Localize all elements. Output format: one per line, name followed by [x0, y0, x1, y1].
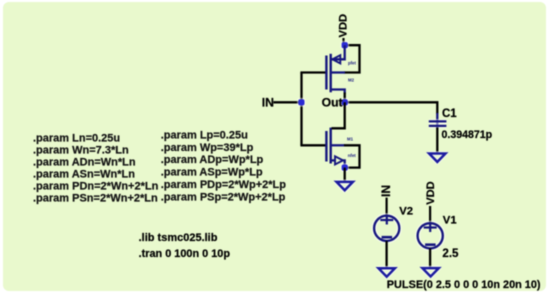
svg-text:.param PSn=2*Wn+2*Ln: .param PSn=2*Wn+2*Ln	[33, 192, 158, 204]
ground (below V1)	[422, 268, 438, 276]
svg-text:V2: V2	[399, 205, 413, 217]
svg-text:Out: Out	[322, 95, 343, 109]
svg-text:.param Ln=0.25u: .param Ln=0.25u	[33, 132, 120, 144]
node VDD	[340, 41, 349, 50]
svg-text:IN: IN	[262, 95, 274, 109]
svg-text:.param PDp=2*Wp+2*Lp: .param PDp=2*Wp+2*Lp	[161, 179, 287, 191]
svg-text:.param ADp=Wp*Lp: .param ADp=Wp*Lp	[161, 154, 264, 166]
wire IN lead	[274, 101, 302, 103]
svg-text:M1: M1	[347, 137, 354, 142]
voltage source V2	[374, 185, 413, 268]
svg-text:nfet: nfet	[348, 153, 356, 158]
wire VDD node to bulk loop	[344, 45, 360, 72]
node NMOS source	[340, 163, 349, 172]
svg-text:PULSE(0 2.5 0 0 0 10n 20n 10): PULSE(0 2.5 0 0 0 10n 20n 10)	[387, 279, 541, 291]
svg-text:M2: M2	[348, 77, 355, 82]
svg-text:.lib tsmc025.lib: .lib tsmc025.lib	[139, 232, 218, 244]
spice directive .param block p	[161, 129, 287, 203]
svg-text:.param ASp=Wp*Lp: .param ASp=Wp*Lp	[161, 167, 263, 179]
svg-text:VDD: VDD	[337, 14, 349, 38]
voltage source V1	[418, 181, 459, 267]
ground (below V2)	[379, 268, 395, 276]
transistor M1 (nfet)	[326, 102, 356, 167]
svg-text:.param Wn=7.3*Ln: .param Wn=7.3*Ln	[33, 144, 129, 156]
svg-text:.param Wp=39*Lp: .param Wp=39*Lp	[161, 142, 254, 154]
wire gate bus vertical	[300, 73, 302, 146]
wire C1 to ground	[436, 128, 438, 154]
wire NMOS bulk loop	[344, 145, 360, 167]
svg-text:.tran 0 100n 0 10p: .tran 0 100n 0 10p	[139, 248, 231, 260]
ground (below M1)	[337, 182, 353, 190]
svg-text:.param Lp=0.25u: .param Lp=0.25u	[161, 129, 248, 141]
spice directive .param block n	[33, 132, 159, 204]
node junction IN	[297, 98, 306, 107]
svg-text:.param PDn=2*Wn+2*Ln: .param PDn=2*Wn+2*Ln	[33, 180, 159, 192]
svg-text:.param ASn=Wn*Ln: .param ASn=Wn*Ln	[33, 168, 135, 180]
svg-text:VDD: VDD	[425, 181, 437, 204]
svg-text:IN: IN	[379, 185, 393, 197]
svg-text:.param PSp=2*Wp+2*Lp: .param PSp=2*Wp+2*Lp	[161, 191, 286, 203]
svg-text:0.394871p: 0.394871p	[442, 129, 493, 141]
svg-text:2.5: 2.5	[442, 247, 459, 260]
wire NMOS gate	[300, 144, 326, 146]
svg-text:C1: C1	[442, 108, 457, 120]
capacitor C1	[429, 108, 493, 141]
wire PMOS gate	[300, 71, 326, 73]
node Out	[340, 98, 349, 107]
ground (below C1)	[429, 154, 445, 162]
power flag VDD (top)	[337, 14, 349, 45]
svg-text:pfet: pfet	[348, 61, 356, 66]
wire source to ground	[344, 168, 346, 182]
svg-text:.param ADn=Wn*Ln: .param ADn=Wn*Ln	[33, 156, 136, 168]
transistor M2 (pfet)	[326, 45, 356, 102]
wire Out to C1	[345, 102, 438, 114]
svg-text:V1: V1	[443, 214, 457, 226]
